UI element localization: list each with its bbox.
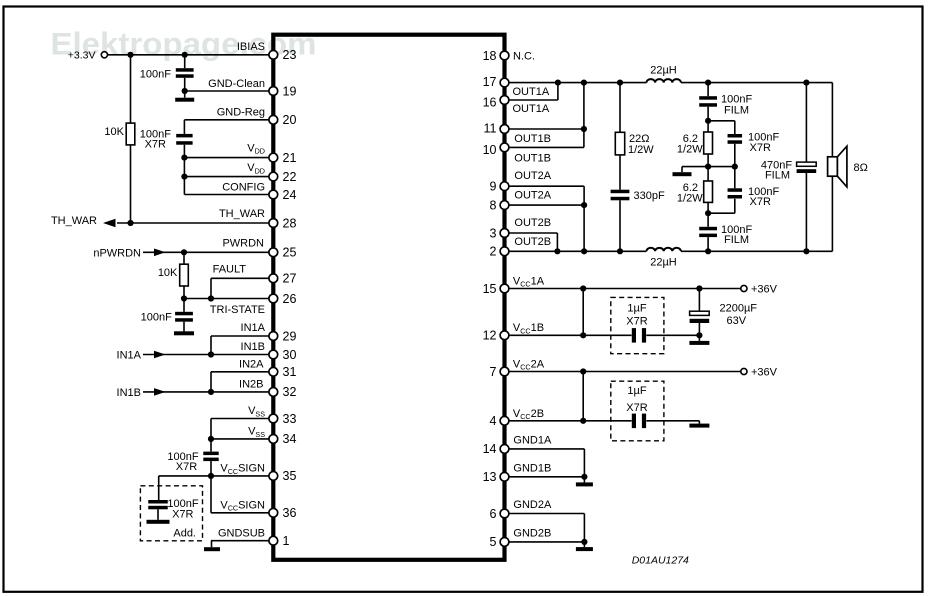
ground below pin 1 [204,547,220,551]
svg-text:4: 4 [490,414,497,428]
label N.C. pin 18 [513,51,535,63]
svg-text:2: 2 [490,245,497,259]
wire IN1B to pins 31 32 [143,372,271,395]
wire pins 9 8 OUT2A to bottom rail [507,186,587,251]
svg-text:+36V: +36V [751,284,778,296]
wire TRI-STATE pin 26 [181,295,271,301]
svg-text:33: 33 [283,412,297,426]
pin 18 (right) [483,49,509,63]
wire GND1A GND1B pins 14 13 [507,449,588,480]
svg-text:3: 3 [490,226,497,240]
label OUT1A pin16 [513,103,550,115]
pin 1 (left) [269,534,290,548]
svg-text:TH_WAR: TH_WAR [219,208,265,220]
svg-text:1/2W: 1/2W [628,144,654,156]
pin 15 (right) [483,282,509,296]
label FAULT [213,264,247,276]
capacitor C12 2200uF 63V electrolytic [690,289,758,336]
pin 33 (left) [269,412,297,426]
pin 5 (right) [490,535,509,549]
pin 28 (left) [269,216,297,230]
wire GND-Clean pin 19 [182,88,271,94]
pin 4 (right) [490,414,509,428]
wire VDD rail to pins 21 22 24 [181,145,271,195]
svg-text:22: 22 [283,170,297,184]
svg-text:1/2W: 1/2W [677,192,703,204]
svg-text:FAULT: FAULT [213,264,247,276]
svg-text:IN1A: IN1A [241,322,266,334]
ground below C1 [175,91,194,102]
wire VCC2A pin 7 to +36V [507,368,741,374]
svg-text:20: 20 [283,113,297,127]
svg-text:IN1B: IN1B [117,387,141,399]
svg-text:+3.3V: +3.3V [68,50,96,62]
wire GND-Reg pin 20 to C2 [184,120,271,134]
capacitor C14 1uF X7R series lower [626,385,647,428]
svg-text:1: 1 [283,534,290,548]
pin 8 (right) [490,198,509,212]
ground below C12 [689,335,709,345]
resistor R1 10K pull-up [104,55,134,223]
svg-text:GNDSUB: GNDSUB [218,527,265,539]
svg-text:16: 16 [483,95,497,109]
pin 34 (left) [269,432,297,446]
inductor L1 22uH [647,64,681,82]
wire VCC1B pin 12 [507,289,703,339]
wire VCC2B pin 4 [507,372,699,424]
svg-text:FILM: FILM [765,170,790,182]
svg-text:GND2A: GND2A [513,499,552,511]
label GND-Reg [217,107,265,119]
svg-text:1µF: 1µF [627,303,646,315]
svg-text:PWRDN: PWRDN [222,238,264,250]
svg-text:IN1A: IN1A [117,350,142,362]
svg-text:25: 25 [283,246,297,260]
ground in add-on box [147,520,170,524]
inductor L2 22uH [647,248,681,268]
watermark Elektropage.com [51,26,317,62]
label PWRDN [222,238,264,250]
svg-text:OUT1A: OUT1A [513,103,550,115]
label OUT1B pin11 [514,133,551,145]
pin 31 (left) [269,365,297,379]
wire VCCSIGN pin 36 branch [211,476,271,513]
svg-text:34: 34 [283,432,297,446]
label D01AU1274 drawing number [632,555,689,567]
label OUT2A pin9 [514,170,551,182]
svg-text:GND-Clean: GND-Clean [208,78,265,90]
label VCC2A [513,359,545,372]
svg-text:23: 23 [283,48,297,62]
svg-text:X7R: X7R [172,508,193,520]
svg-text:27: 27 [283,272,297,286]
pin 17 (right) [483,75,509,89]
svg-text:OUT1B: OUT1B [514,133,551,145]
wire VCC1A pin 15 to +36V [507,285,741,291]
label IN2A pin31 [239,358,264,370]
pin 24 (left) [269,188,297,202]
node +3.3V supply terminal [68,50,108,62]
svg-text:12: 12 [483,329,497,343]
wire FAULT pin 27 branch [211,278,271,298]
dashed box optional add-on [140,486,202,541]
svg-text:29: 29 [283,329,297,343]
svg-text:OUT1B: OUT1B [514,152,551,164]
label OUT1B pin10 [514,152,551,164]
ground mid filter [673,172,692,176]
label OUT1A pin17 [513,86,550,98]
svg-text:X7R: X7R [176,461,197,473]
label GND-Clean [208,78,265,90]
wire speaker branch [831,83,833,252]
label VDD pin21 [247,142,265,155]
svg-text:22µH: 22µH [650,256,677,268]
svg-text:10K: 10K [158,267,178,279]
label CONFIG [222,181,265,193]
wire mid node with ground [682,164,738,173]
node +36V terminal upper [741,284,778,296]
pin 3 (right) [490,226,509,240]
ground after C14 [689,421,709,428]
svg-text:28: 28 [283,216,297,230]
wire OUT2B bottom rail [507,248,832,254]
svg-text:OUT2A: OUT2A [514,170,551,182]
svg-text:FILM: FILM [724,234,749,246]
svg-text:7: 7 [490,365,497,379]
pin 13 (right) [483,470,509,484]
svg-text:Add.: Add. [173,528,196,540]
svg-text:100nF: 100nF [141,311,172,323]
pin 9 (right) [490,180,509,194]
svg-text:+36V: +36V [751,367,778,379]
label OUT2A pin8 [514,190,551,202]
resistor R4 6.2 ohm 1/2W [677,118,713,167]
label IN2B pin32 [239,378,263,390]
svg-text:N.C.: N.C. [513,51,535,63]
capacitor C9 100nF X7R lower [705,167,779,217]
capacitor C1 100nF IBIAS decoupling [140,55,194,91]
wire GND2A GND2B pins 6 5 [507,514,588,546]
node nPWRDN input with arrow [93,248,165,260]
wire pins 11 10 OUT1B to rail [507,83,587,148]
svg-text:100nF: 100nF [140,68,171,80]
pin 21 (left) [269,151,297,165]
svg-text:GND-Reg: GND-Reg [217,107,265,119]
svg-text:15: 15 [483,282,497,296]
pin 2 (right) [490,245,509,259]
capacitor C8 100nF X7R upper [708,121,779,167]
capacitor C11 470nF FILM [761,83,816,252]
label OUT2B pin3 [514,217,551,229]
pin 14 (right) [483,442,509,456]
wire IN1A to pins 29 30 [143,336,271,358]
svg-text:X7R: X7R [750,196,771,208]
pin 20 (left) [269,113,297,127]
svg-text:5: 5 [490,535,497,549]
pin 25 (left) [269,246,297,260]
svg-text:8: 8 [490,198,497,212]
pin 36 (left) [269,506,297,520]
loudspeaker LS1 8 ohm [828,146,868,187]
svg-text:22µH: 22µH [650,64,677,76]
svg-text:10K: 10K [104,126,124,138]
label VSS pin34 [248,426,265,439]
label VCC1B [513,322,544,335]
label IN1A pin29 [241,322,266,334]
pin 10 (right) [483,143,509,157]
svg-text:11: 11 [484,121,497,135]
capacitor C10 100nF FILM bottom [699,213,752,251]
svg-text:D01AU1274: D01AU1274 [632,555,689,567]
svg-text:nPWRDN: nPWRDN [93,248,141,260]
svg-text:IN1B: IN1B [241,341,265,353]
ground GND2 [576,542,593,551]
pin 29 (left) [269,329,297,343]
label VSS pin33 [248,405,265,418]
svg-text:OUT2A: OUT2A [514,190,551,202]
wire +3.3V rail to pin 23 [108,52,272,58]
wire VSS pins 33 34 [208,419,271,443]
svg-text:OUT1A: OUT1A [513,86,550,98]
pin 22 (left) [269,170,297,184]
wire pin 3 OUT2B to bottom rail [507,233,557,251]
label IBIAS [237,41,265,53]
svg-text:FILM: FILM [724,104,749,116]
pin 11 (right) [484,121,509,135]
pin 7 (right) [490,365,509,379]
svg-text:14: 14 [483,442,497,456]
svg-text:GND1B: GND1B [513,462,551,474]
label GNDSUB [218,527,265,539]
svg-text:32: 32 [283,385,297,399]
svg-text:X7R: X7R [145,138,166,150]
label OUT2B pin2 [514,236,551,248]
svg-text:TRI-STATE: TRI-STATE [210,304,265,316]
dashed box 1uF X7R lower [611,381,664,441]
svg-text:1/2W: 1/2W [677,143,703,155]
capacitor C5 100nF X7R add-on [148,476,199,540]
wire VCCSIGN pin 35 [159,473,271,479]
svg-text:X7R: X7R [626,316,647,328]
wire nPWRDN to pin 25 [143,249,271,255]
capacitor C7 100nF FILM top [699,83,752,121]
label VCC1A [513,275,545,288]
svg-text:VCCSIGN: VCCSIGN [220,500,265,513]
svg-text:26: 26 [283,292,297,306]
svg-text:1µF: 1µF [627,385,646,397]
dashed box 1uF X7R upper [611,297,664,353]
svg-text:13: 13 [483,470,497,484]
pin 19 (left) [269,84,297,98]
svg-text:6: 6 [490,507,497,521]
svg-text:10: 10 [483,143,497,157]
svg-text:9: 9 [490,180,497,194]
resistor R2 10K PWRDN pull-down [158,252,188,298]
label TH_WAR pin28 [219,208,265,220]
capacitor C4 100nF X7R VSS decoupling [167,439,218,476]
svg-text:18: 18 [483,49,497,63]
label GND2A [513,499,552,511]
svg-text:63V: 63V [727,315,747,327]
svg-text:8Ω: 8Ω [854,162,868,174]
svg-text:IN2B: IN2B [239,378,263,390]
capacitor C13 1uF X7R series upper [626,303,647,343]
svg-text:24: 24 [283,188,297,202]
label VCC2B [513,408,544,421]
svg-text:31: 31 [283,365,297,379]
wire pin 16 to OUT1A rail [507,83,558,100]
pin 16 (right) [483,95,509,109]
label VCCSIGN pin35 [220,463,265,476]
label GND2B [513,527,551,539]
label GND1B [513,462,551,474]
capacitor C3 100nF TRI-STATE filter [141,299,193,332]
svg-text:CONFIG: CONFIG [222,181,265,193]
svg-text:2200µF: 2200µF [720,302,758,314]
resistor R5 6.2 ohm 1/2W lower [677,167,713,214]
svg-text:OUT2B: OUT2B [514,236,551,248]
svg-text:35: 35 [283,469,297,483]
svg-text:TH_WAR: TH_WAR [51,215,97,227]
label IN1B pin30 [241,341,265,353]
svg-text:VCCSIGN: VCCSIGN [220,463,265,476]
resistor R3 22 ohm 1/2W snubber [615,83,654,190]
svg-text:30: 30 [283,348,297,362]
node +36V terminal lower [741,367,778,379]
op-amp U1 TDA class-D amplifier IC body [273,35,504,560]
pin 26 (left) [269,292,297,306]
capacitor C6 330pF snubber [611,190,665,252]
label VCCSIGN pin36 [220,500,265,513]
node TH_WAR output with arrow [51,215,116,227]
pin 30 (left) [269,348,297,362]
svg-text:330pF: 330pF [634,190,665,202]
svg-text:17: 17 [483,75,497,89]
wire GNDSUB pin 1 [211,541,271,548]
pin 35 (left) [269,469,297,483]
node IN1A input with arrow [117,350,166,362]
pin 27 (left) [269,272,297,286]
wire OUT1A top rail [507,80,832,86]
svg-text:GND1A: GND1A [513,434,552,446]
svg-text:19: 19 [283,84,297,98]
ground below C3 [174,331,194,335]
svg-text:IN2A: IN2A [239,358,264,370]
label GND1A [513,434,552,446]
label VDD pin22 [247,162,265,175]
svg-text:GND2B: GND2B [513,527,551,539]
svg-text:21: 21 [283,151,297,165]
wire TH_WAR pin 28 [117,220,271,226]
pin 6 (right) [490,507,509,521]
label TRI-STATE [210,304,265,316]
svg-text:OUT2B: OUT2B [514,217,551,229]
svg-text:IBIAS: IBIAS [237,41,265,53]
node IN1B input with arrow [117,387,166,399]
pin 23 (left) [269,48,297,62]
svg-text:36: 36 [283,506,297,520]
ground GND1 [576,477,593,487]
pin 32 (left) [269,385,297,399]
svg-text:X7R: X7R [626,402,647,414]
svg-text:X7R: X7R [750,142,771,154]
pin 12 (right) [483,329,509,343]
capacitor C2 100nF X7R [140,129,193,151]
